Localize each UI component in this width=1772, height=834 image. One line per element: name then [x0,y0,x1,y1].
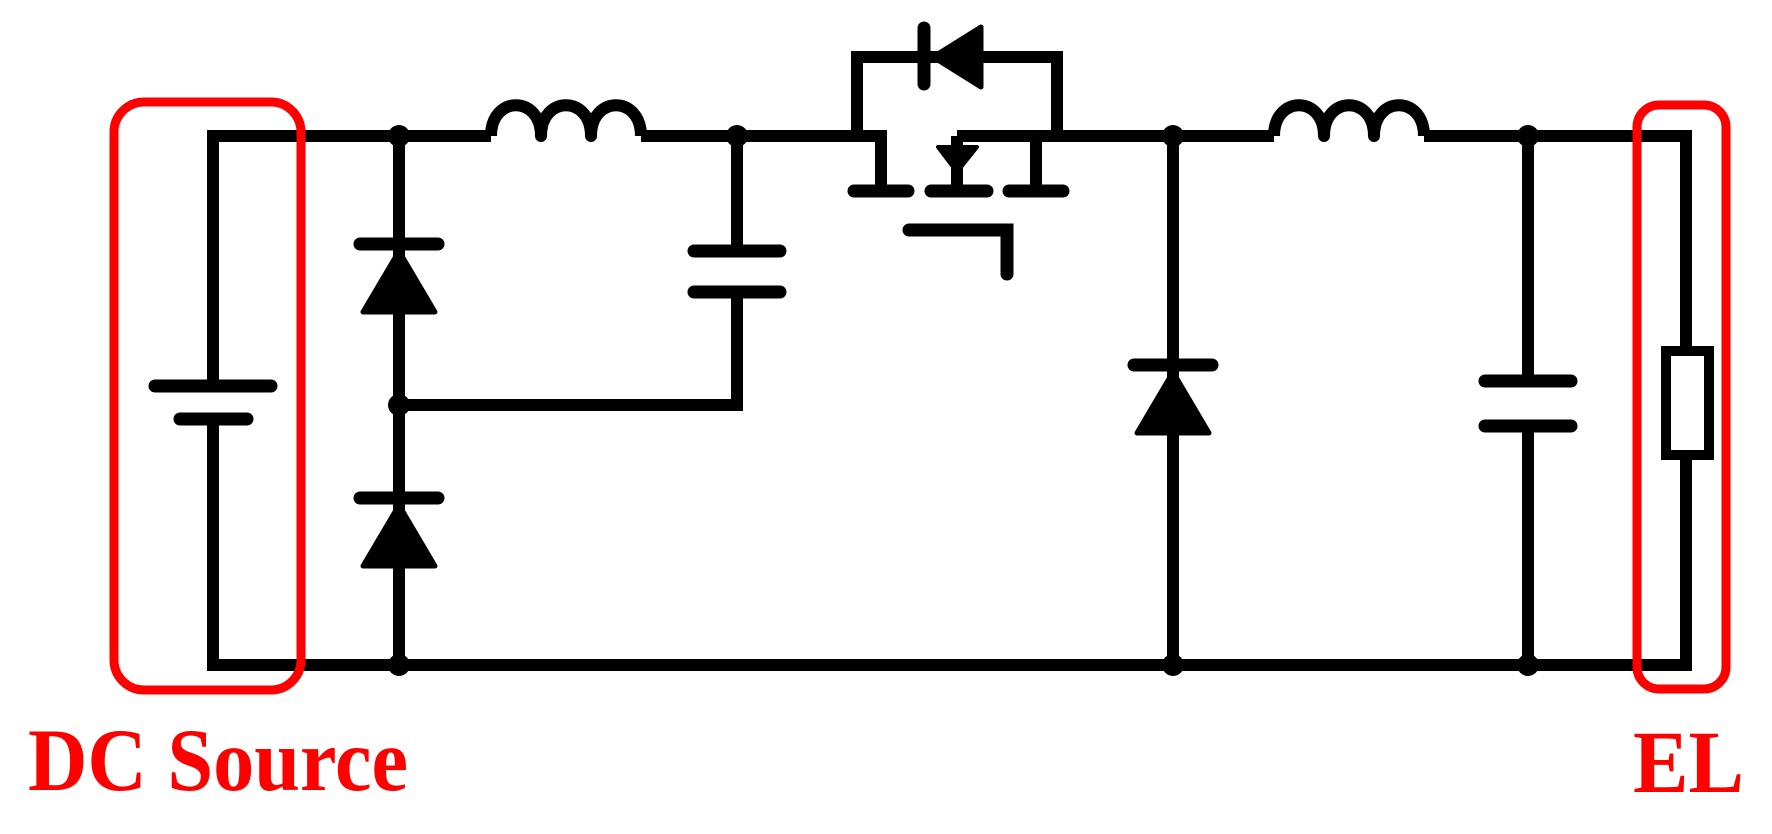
wire anti-parallel diode loop [857,57,1057,136]
DC source red outline box [114,102,301,690]
transistor Q1 channel bar drain [854,185,908,198]
node top at D3 [1162,125,1184,147]
EL red outline box [1637,105,1726,689]
node mid D1-D2 [388,394,410,416]
wire L2 to EL [1424,136,1686,351]
wire diode branch D3 [1167,136,1179,665]
capacitor C2 plate top [1485,375,1571,388]
node top at D1 [388,125,410,147]
svg-text:EL: EL [1633,714,1744,812]
diode D1 triangle [363,251,435,312]
capacitor C1 plate bottom [694,286,780,299]
capacitor C2 plate bottom [1485,420,1571,433]
wire bottom bus [213,419,1686,665]
battery V1 short plate [180,413,247,426]
node bottom at D3 [1162,654,1184,676]
wire source to L2 [957,130,1274,142]
node top at C2 [1517,125,1539,147]
transistor Q1 body arrow [938,147,977,172]
resistor EL body [1666,351,1709,455]
transistor Q1 channel bar source [1009,185,1063,198]
wire diode branch D1-D2 [393,136,405,665]
node bottom at D2 [388,654,410,676]
transistor Q1 gate lead [909,230,1007,274]
diode D1 cathode bar [360,238,438,251]
wire L1 to drain [641,136,881,186]
wire capacitor C2 branch [1522,136,1534,665]
capacitor C1 plate top [694,245,780,258]
diode D2 cathode bar [360,492,438,505]
transistor Q1 drain-gate leads [951,136,963,147]
diode D4 triangle (body diode) [933,27,981,87]
diode D2 triangle [363,505,435,566]
node bottom at C2 [1517,654,1539,676]
diode D3 cathode bar [1134,359,1212,372]
diode D4 cathode bar (body diode) [918,28,931,84]
diode D3 triangle [1137,372,1209,433]
inductor L2 [1274,105,1424,136]
svg-text:DC Source: DC Source [28,712,408,810]
wire capacitor C1 branch [399,136,737,405]
transistor Q1 channel bar body [931,185,987,198]
node top at C1 [726,125,748,147]
battery V1 long plate [155,380,271,393]
inductor L1 [491,105,641,136]
wire top-left bus [213,136,491,388]
